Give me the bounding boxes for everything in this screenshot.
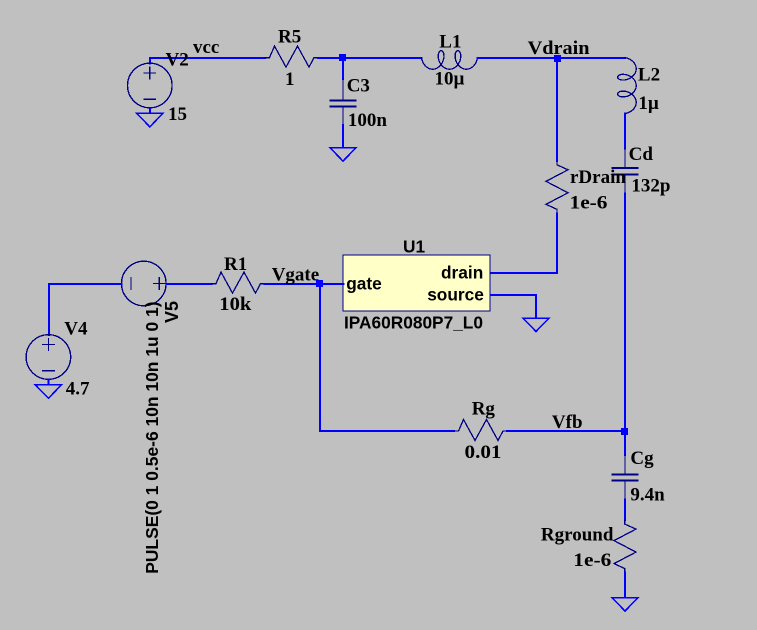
wire V5 to R1 [167,283,212,285]
wire Vgate down to Rg [320,287,454,431]
resistor Rground [614,520,636,573]
ground below V2 [137,113,163,127]
wire L2 to Cd [624,114,626,149]
wire V2 bottom stub [149,108,151,113]
wire L1 to Vdrain to L2 [478,57,626,59]
wire Vfb down to Cg [624,434,626,455]
wire vcc: V2 top stub to R5 [150,58,265,64]
svg-text:Cg: Cg [630,448,654,469]
svg-text:R1: R1 [224,254,247,275]
svg-text:Vgate: Vgate [272,265,319,286]
node junction Vfb [621,428,628,435]
wire Cd to Vfb vertical [624,194,626,429]
ground at bottom [612,598,638,612]
svg-text:source: source [427,285,484,305]
wire R5 to L1 [318,57,422,59]
capacitor C3 [331,79,356,125]
wire Cg to Rground [624,500,626,521]
wire Rground to ground [624,573,626,598]
ground at U1 source [523,318,549,331]
voltage source V2 [128,63,173,108]
svg-text:10k: 10k [219,294,251,315]
svg-text:gate: gate [346,274,382,294]
capacitor Cg [613,455,638,500]
wire V5 left to V4 [49,284,122,335]
op-amp U1 (subckt box) [343,255,490,311]
ground below V4 [35,385,61,398]
svg-text:C3: C3 [347,75,370,96]
wire C3 bottom [342,125,344,148]
svg-text:R5: R5 [278,27,301,48]
svg-text:Vfb: Vfb [552,412,583,433]
wire R1 to Vgate junction to U1 gate [265,283,344,285]
svg-text:9.4n: 9.4n [630,484,665,505]
resistor Rg [454,420,507,441]
svg-text:PULSE(0 1 0.5e-6 10n 10n 1u 0: PULSE(0 1 0.5e-6 10n 10n 1u 0 1) [142,301,162,573]
svg-text:Rg: Rg [472,399,496,420]
inductor L1 [422,51,478,70]
node junction Vdrain [554,55,561,62]
resistor R5 [265,46,318,67]
svg-text:L1: L1 [439,31,461,52]
svg-text:rDrain: rDrain [570,167,626,188]
wire Rg to Vfb junction [507,430,625,432]
ground below C3 [330,148,356,161]
wire U1 source pin to ground [491,295,537,318]
wire V4 bottom stub [47,379,49,384]
svg-text:4.7: 4.7 [66,378,90,399]
inductor L2 [618,58,637,114]
svg-text:Vdrain: Vdrain [528,38,590,59]
svg-text:1: 1 [285,69,295,90]
svg-text:V4: V4 [64,318,88,339]
node junction Vgate [316,280,323,287]
svg-text:L2: L2 [638,64,660,85]
svg-text:U1: U1 [403,236,425,256]
svg-text:0.01: 0.01 [465,442,502,463]
voltage source V4 [26,335,71,380]
svg-text:IPA60R080P7_L0: IPA60R080P7_L0 [344,312,483,332]
node junction at C3 [339,54,346,61]
wire rDrain to U1 drain pin [491,213,558,273]
resistor R1 [212,272,265,293]
svg-text:drain: drain [441,263,483,283]
wire C3 top [342,58,344,79]
svg-text:10µ: 10µ [435,68,465,89]
svg-text:1e-6: 1e-6 [573,550,611,571]
svg-text:Cd: Cd [629,144,654,165]
resistor rDrain [546,161,568,213]
svg-text:15: 15 [168,104,187,125]
svg-text:V2: V2 [166,49,189,70]
capacitor Cd [613,149,638,194]
svg-text:1µ: 1µ [638,93,659,114]
svg-text:V5: V5 [162,301,182,323]
wire Vdrain down to rDrain [556,61,558,161]
svg-text:132p: 132p [631,176,670,197]
svg-text:vcc: vcc [193,37,219,58]
svg-text:100n: 100n [348,110,388,131]
voltage source V5 [122,261,167,306]
svg-text:1e-6: 1e-6 [570,193,608,214]
svg-text:Rground: Rground [541,525,614,546]
